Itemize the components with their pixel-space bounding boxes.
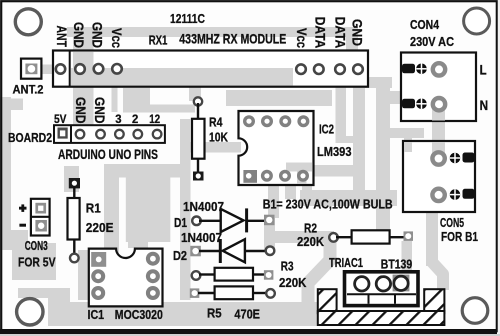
label + (19, 207, 27, 210)
IC2 pin 5 (297, 115, 309, 127)
CON5 terminal 2 black contact (463, 189, 475, 199)
resistor R3 left pad (192, 271, 201, 280)
diode D1 left pad (192, 217, 201, 226)
wire vertical below RX1 right pads (336, 87, 347, 143)
svg-text:Vcc: Vcc (109, 28, 124, 48)
wire R5 right lead (252, 292, 266, 294)
CON3 - pad (round hole) (35, 220, 47, 232)
svg-text:BT139: BT139 (381, 256, 412, 271)
IC2 pin 1 square pad (243, 170, 257, 183)
CON5 terminal 1 ring pad (432, 152, 444, 164)
svg-text:BOARD2: BOARD2 (8, 130, 52, 145)
mounting hole top-left (15, 9, 41, 35)
wire below IC2 pad4 to B1 band (302, 186, 312, 200)
wire R2 right pad down to triac gate (402, 241, 413, 278)
RX1 pin DATA(1) (314, 64, 324, 74)
svg-text:1N4007: 1N4007 (183, 199, 224, 214)
svg-text:220K: 220K (297, 234, 325, 249)
wire horizontal link near CON4 (353, 77, 392, 88)
svg-text:5V: 5V (54, 112, 67, 126)
heatsink left tab (318, 289, 337, 313)
wire R5 left lead (198, 292, 215, 294)
svg-text:ANT.2: ANT.2 (13, 82, 44, 96)
wire blob near CON3 / FOR 5V (0, 230, 28, 250)
RX1 pin Vcc(2) (296, 64, 306, 74)
IC1 pin 3 (91, 286, 105, 300)
svg-text:3: 3 (115, 112, 122, 126)
connector CON5 outline (403, 141, 475, 212)
wire R4 bottom lead (197, 158, 199, 174)
resistor R2 body (352, 230, 390, 243)
svg-text:ARDUINO UNO PINS: ARDUINO UNO PINS (58, 146, 158, 162)
wire bottom band thin extension (18, 288, 70, 298)
BOARD2 pin 3 (115, 130, 124, 139)
wire stub to CON4 N (376, 91, 409, 104)
svg-text:IC2: IC2 (319, 122, 334, 137)
wire IC2 to right vertical (314, 165, 361, 177)
svg-text:MOC3020: MOC3020 (115, 307, 163, 322)
resistor R2 left pad (329, 233, 338, 242)
op-amp IC2 LM393 outline with notch (239, 111, 314, 185)
svg-text:B1= 230V AC,100W BULB: B1= 230V AC,100W BULB (263, 197, 393, 212)
diode D2 cathode bar (219, 239, 222, 263)
wire left of IC1 to bottom band (78, 250, 90, 300)
CON4 terminal L ring pad (433, 63, 445, 75)
diode D1 triangle (221, 209, 244, 232)
wire D1 anode lead (199, 220, 221, 222)
IC2 pin 7 (261, 115, 273, 127)
svg-text:GND: GND (350, 19, 365, 46)
BOARD2 pin 2 (134, 130, 143, 139)
CON4 terminal L black contact (402, 64, 415, 74)
wire D2 right pad to R2 left pad (269, 231, 334, 243)
wire vertical to IC1 pin1 (104, 170, 119, 253)
svg-text:1N4007: 1N4007 (181, 230, 222, 245)
resistor R1 bottom pad (70, 254, 79, 263)
wire D1 cathode lead (246, 220, 265, 222)
wire long vertical below CON4 (376, 88, 390, 242)
CON4 terminal N screw (416, 99, 427, 110)
RX1 433MHz module outline (53, 51, 368, 87)
diode D1 right pad (264, 215, 275, 226)
mounting hole bottom-left (17, 299, 43, 325)
IC2 pin 2 (261, 170, 273, 182)
wire R2 left lead (336, 236, 352, 238)
svg-text:230V AC: 230V AC (410, 34, 455, 49)
diode D2 left pad (190, 246, 201, 256)
wire elbow joining verticals (336, 136, 366, 143)
triac pin MT2 (376, 277, 390, 291)
CON5 terminal 2 ring pad (432, 189, 444, 201)
wire D2 cathode lead (199, 250, 221, 252)
svg-text:CON5: CON5 (440, 215, 464, 230)
RX1 ANT section divider (69, 51, 71, 87)
BOARD2 pin 5V square pad (58, 128, 68, 139)
wire ANT.2 to RX1 ANT pad (38, 65, 58, 75)
wire trace visible inside IC2 (286, 163, 312, 172)
CON5 terminal 1 screw (450, 153, 461, 164)
wire R1 top lead (73, 186, 75, 199)
diode D1 cathode bar (245, 208, 248, 232)
svg-text:10K: 10K (209, 130, 228, 145)
IC2 pin 3 (279, 170, 291, 182)
svg-text:R4: R4 (209, 115, 223, 130)
resistor R4 bottom pad (193, 172, 204, 181)
wire R1 bottom lead (73, 239, 75, 254)
IC1 pin 6 (146, 252, 160, 266)
diode D2 right pad (266, 246, 275, 255)
mounting hole top-right (464, 8, 490, 34)
wire trace visible inside CON4 (432, 108, 445, 121)
IC1 pin 2 (91, 269, 105, 283)
wire CON5 down vertical to heatsink right tab (426, 212, 438, 266)
optocoupler IC1 MOC3020 outline with notch (89, 249, 163, 307)
IC2 pin 8 (243, 115, 255, 127)
BOARD2 pin 12 (153, 130, 162, 139)
triac base divider (347, 293, 416, 295)
svg-text:TRIAC1: TRIAC1 (329, 255, 363, 270)
svg-text:470E: 470E (234, 306, 260, 321)
wire R4 top lead (197, 103, 199, 120)
svg-text:GND: GND (73, 97, 88, 124)
resistor R4 top pad (194, 97, 202, 105)
wire top supply trace band (67, 27, 347, 37)
CON4 terminal N ring pad (433, 98, 445, 110)
connector CON3 outline (31, 199, 50, 236)
wire copper block above IC1 (126, 178, 171, 243)
wire B1 horizontal band (300, 190, 397, 206)
resistor R5 right pad (266, 289, 275, 298)
svg-text:R3: R3 (281, 258, 294, 273)
IC1 pin 5 (146, 269, 160, 283)
wire D1 right pad to D2 right pad (264, 218, 275, 252)
svg-text:DATA: DATA (333, 17, 348, 49)
svg-text:LM393: LM393 (317, 144, 352, 159)
svg-text:R5: R5 (207, 305, 222, 320)
resistor R3 right pad (264, 270, 274, 280)
svg-text:CON3: CON3 (25, 239, 48, 253)
wire R3 left lead (199, 273, 215, 275)
connector CON4 outline (401, 53, 476, 122)
triac TRIAC1 package outline (345, 272, 419, 306)
svg-text:GND: GND (92, 97, 107, 124)
svg-text:220K: 220K (279, 275, 307, 290)
svg-text:D2: D2 (173, 248, 187, 263)
wire R2 left pad down-left diagonal to bottom band (308, 240, 330, 308)
svg-text:GND: GND (71, 22, 86, 48)
connector BOARD2 outline (54, 125, 165, 143)
svg-text:D1: D1 (174, 215, 187, 230)
wire vertical to R1 top pad (64, 166, 79, 192)
IC2 pin 4 (297, 170, 309, 182)
svg-text:DATA: DATA (313, 17, 328, 49)
triac pin G (394, 276, 408, 290)
wire IC2 pad down to D1 right pad (268, 185, 279, 218)
CON3 + pad (square hole) (35, 203, 46, 214)
RX1 pin GND(2) (94, 64, 104, 74)
heatsink bottom bar (318, 311, 445, 325)
RX1 pin DATA(2) (335, 64, 345, 74)
wire R2 right lead (389, 236, 404, 238)
svg-text:12111C: 12111C (170, 11, 205, 26)
svg-text:FOR 5V: FOR 5V (18, 254, 56, 269)
RX1 pin ANT (56, 64, 65, 73)
BOARD2 pin GND(1) (76, 130, 85, 139)
svg-text:220E: 220E (86, 220, 114, 235)
wire trace visible inside CON5 (432, 142, 445, 155)
resistor R5 body (215, 286, 253, 299)
triac pin MT1 (355, 277, 369, 291)
antenna pad ANT.2 (21, 59, 41, 79)
label - (19, 224, 26, 227)
svg-text:IC1: IC1 (88, 307, 105, 322)
wire CON4 to CON5 vertical (432, 104, 445, 158)
wire bottom horizontal band (48, 302, 318, 326)
CON5 terminal 1 black contact (463, 153, 475, 163)
wire block below RX1 strip (112, 87, 118, 112)
heatsink right tab (424, 289, 444, 313)
RX1 pin GND(1) (75, 64, 85, 74)
svg-text:RX1: RX1 (149, 32, 168, 47)
mounting hole bottom-right (462, 298, 488, 324)
svg-text:ANT: ANT (54, 26, 69, 48)
wire long vertical left of diodes (180, 119, 191, 300)
wire band inside RX1 strip (80, 68, 293, 86)
IC1 pin 4 (146, 286, 160, 300)
svg-text:12: 12 (149, 112, 160, 126)
wire left edge stub to ANT.2 (0, 99, 23, 111)
wire band above IC2 (226, 90, 332, 106)
wire top band elbow down to RX1 (346, 27, 358, 52)
wire IC2 pad stub (285, 185, 296, 199)
wire R4 to IC2 notch link (181, 142, 241, 153)
svg-text:433MHZ RX MODULE: 433MHZ RX MODULE (179, 31, 286, 47)
wire D2 anode lead (244, 250, 266, 252)
wire vertical under GND labels through RX1 to BOARD2 (73, 33, 94, 126)
svg-text:CON4: CON4 (410, 17, 440, 32)
RX1 pin Vcc(1) (112, 64, 122, 74)
RX1 pin GND(3) (353, 64, 363, 74)
IC2 pin 6 (279, 115, 291, 127)
wire trace visible inside RX1 strip (73, 52, 94, 86)
svg-text:GND: GND (90, 22, 105, 48)
svg-text:N: N (480, 97, 489, 113)
BOARD2 pin GND(2) (96, 130, 105, 139)
wire left edge vertical trace (0, 97, 11, 240)
CON4 terminal N black contact (402, 99, 415, 109)
svg-text:R1: R1 (86, 201, 101, 216)
resistor R1 body (68, 198, 80, 240)
resistor R4 body (192, 119, 205, 159)
svg-text:2: 2 (132, 112, 139, 126)
wire horizontal below ARDUINO text (104, 164, 190, 178)
diode D2 triangle (223, 239, 245, 262)
wire long vertical right of IC2 (353, 87, 365, 195)
svg-text:L: L (480, 62, 487, 78)
CON4 terminal L screw (416, 64, 427, 75)
resistor R5 left pad (190, 288, 200, 298)
resistor R1 top pad (69, 178, 80, 188)
IC1 pin 1 square pad (91, 252, 106, 267)
wire strip to R4 top pad (189, 87, 201, 101)
wire R3 right lead (252, 273, 265, 275)
resistor R3 body (215, 268, 253, 281)
resistor R2 right pad (404, 231, 414, 241)
CON5 terminal 2 screw (450, 189, 461, 200)
svg-text:Vcc: Vcc (294, 28, 309, 48)
svg-text:FOR B1: FOR B1 (441, 229, 478, 244)
